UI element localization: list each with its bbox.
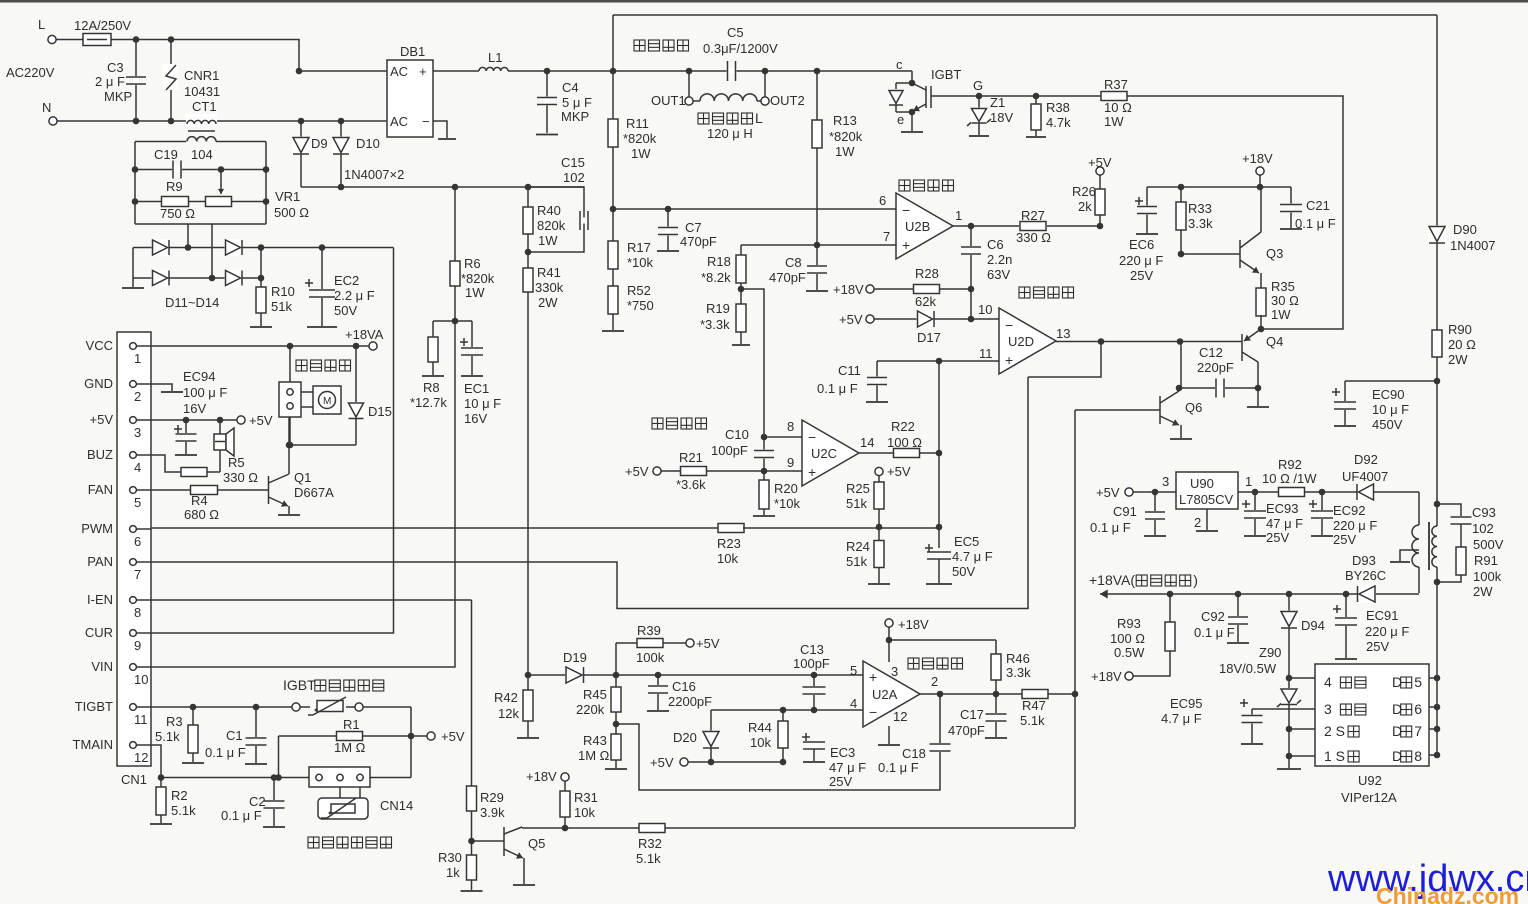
svg-text:R26: R26 — [1072, 184, 1096, 199]
wire bus y209 — [610, 206, 896, 213]
svg-text:VIN: VIN — [91, 659, 113, 674]
resistor R30 — [438, 841, 483, 891]
svg-text:*8.2k: *8.2k — [701, 270, 731, 285]
terminal +5V U90 — [1096, 485, 1176, 500]
svg-text:CN1: CN1 — [121, 772, 147, 787]
svg-text:R11: R11 — [626, 116, 649, 131]
svg-text:D19: D19 — [563, 650, 587, 665]
svg-text:EC90: EC90 — [1372, 387, 1405, 402]
svg-text:5.1k: 5.1k — [1020, 713, 1045, 728]
svg-text:C19: C19 — [154, 147, 178, 162]
svg-text:8: 8 — [787, 419, 794, 434]
svg-text:EC92: EC92 — [1333, 503, 1366, 518]
transformer core — [1428, 522, 1430, 570]
svg-text:OUT1: OUT1 — [651, 93, 686, 108]
svg-text:AC: AC — [390, 64, 408, 79]
resistor R45 — [576, 672, 621, 724]
svg-text:Z90: Z90 — [1259, 645, 1281, 660]
svg-text:12k: 12k — [498, 706, 519, 721]
svg-text:TIGBT: TIGBT — [75, 699, 113, 714]
capacitor C19 — [132, 147, 270, 179]
svg-text:2k: 2k — [1078, 199, 1092, 214]
wire top box — [613, 14, 1437, 16]
svg-text:FAN: FAN — [88, 482, 113, 497]
capacitor C11 — [817, 361, 888, 402]
svg-text:U90: U90 — [1190, 476, 1214, 491]
resistor R19 — [700, 286, 750, 345]
svg-text:R52: R52 — [627, 283, 651, 298]
svg-text:C11: C11 — [838, 363, 861, 378]
svg-text:L: L — [38, 17, 45, 32]
diode D15 — [348, 346, 392, 445]
resistor R21 — [625, 450, 764, 492]
svg-text:1W: 1W — [1271, 307, 1291, 322]
zener Z1 — [967, 93, 1013, 136]
svg-text:R44: R44 — [748, 720, 772, 735]
diode D11 — [152, 239, 170, 256]
svg-text:11: 11 — [134, 712, 148, 727]
svg-text:2 S: 2 S — [1324, 723, 1345, 739]
svg-text:R46: R46 — [1006, 651, 1030, 666]
svg-text:102: 102 — [563, 170, 585, 185]
label U92 — [1341, 773, 1397, 805]
U90 pin2 gnd — [1194, 509, 1218, 531]
fan connector — [279, 346, 301, 417]
wire pin2 — [1286, 726, 1315, 733]
fuse F1 12A/250V — [56, 18, 131, 46]
svg-text:9: 9 — [134, 638, 141, 653]
svg-text:): ) — [1193, 572, 1198, 588]
capacitor EC1 — [460, 321, 501, 426]
svg-text:3: 3 — [134, 425, 141, 440]
svg-text:220pF: 220pF — [1197, 360, 1234, 375]
svg-text:R6: R6 — [464, 256, 481, 271]
resistor R28 — [833, 266, 974, 309]
resistor R92 — [1238, 457, 1358, 497]
svg-text:C10: C10 — [725, 427, 749, 442]
fan motor M — [301, 386, 341, 414]
svg-text:14: 14 — [860, 435, 874, 450]
svg-text:G: G — [973, 78, 983, 93]
resistor R2 — [150, 778, 196, 825]
zener Z90 — [1219, 645, 1301, 768]
varistor CNR1 — [163, 36, 220, 124]
svg-text:R43: R43 — [583, 733, 607, 748]
resistor R93 — [1091, 591, 1175, 684]
wire R18R19 to C10 — [741, 289, 764, 437]
wire CUR route — [151, 248, 394, 634]
svg-text:1: 1 — [134, 351, 141, 366]
node R8 EC1 — [433, 318, 472, 325]
capacitor C16 — [647, 672, 712, 711]
svg-text:1W: 1W — [465, 285, 485, 300]
svg-text:D9: D9 — [311, 136, 328, 151]
svg-text:1: 1 — [955, 208, 962, 223]
svg-text:CN14: CN14 — [380, 798, 413, 813]
wire Q4 gnd — [1247, 385, 1269, 407]
U92 drain wires — [1429, 675, 1440, 759]
svg-text:U2A: U2A — [872, 687, 898, 702]
resistor R90 — [1432, 322, 1476, 504]
svg-text:D94: D94 — [1301, 618, 1325, 633]
capacitor C10 — [711, 427, 774, 474]
svg-text:0.1 μ F: 0.1 μ F — [1295, 216, 1336, 231]
svg-text:BUZ: BUZ — [87, 447, 113, 462]
wire main bus y71 — [613, 70, 912, 72]
svg-text:51k: 51k — [846, 554, 867, 569]
svg-text:2 μ F: 2 μ F — [95, 74, 125, 89]
svg-text:AC: AC — [390, 114, 408, 129]
terminal +5V D20 — [650, 755, 786, 770]
svg-text:R39: R39 — [637, 623, 661, 638]
svg-text:100 Ω: 100 Ω — [1110, 631, 1145, 646]
svg-text:*10k: *10k — [627, 255, 654, 270]
svg-text:3: 3 — [891, 664, 898, 679]
svg-text:2: 2 — [1194, 515, 1201, 530]
svg-text:10 Ω /1W: 10 Ω /1W — [1262, 471, 1317, 486]
svg-text:2.2n: 2.2n — [987, 252, 1012, 267]
svg-text:D20: D20 — [673, 730, 697, 745]
svg-text:+5V: +5V — [839, 312, 863, 327]
svg-text:VIPer12A: VIPer12A — [1341, 790, 1397, 805]
svg-text:R40: R40 — [537, 203, 561, 218]
transistor Q1 — [269, 417, 335, 515]
capacitor C91 — [1090, 492, 1166, 536]
capacitor C4 — [536, 68, 592, 135]
wire pin4 — [711, 696, 863, 713]
svg-text:VR1: VR1 — [275, 189, 300, 204]
diode D93 BY26C — [1345, 553, 1386, 603]
connector CN1 — [73, 332, 151, 787]
svg-text:EC3: EC3 — [830, 745, 855, 760]
svg-text:R45: R45 — [583, 687, 607, 702]
resistor R37 — [1101, 77, 1132, 129]
svg-text:51k: 51k — [846, 496, 867, 511]
svg-text:1N4007: 1N4007 — [1450, 238, 1496, 253]
svg-text:N: N — [42, 100, 51, 115]
svg-text:U92: U92 — [1358, 773, 1382, 788]
watermark chinadz — [1376, 883, 1519, 904]
capacitor EC6 — [1119, 187, 1163, 283]
diode D90 — [1428, 15, 1496, 330]
svg-text:12: 12 — [893, 709, 907, 724]
scan edge — [0, 0, 1528, 3]
svg-text:10 μ F: 10 μ F — [1372, 402, 1409, 417]
svg-text:R33: R33 — [1188, 201, 1212, 216]
svg-text:Chinadz.com: Chinadz.com — [1376, 883, 1519, 904]
svg-text:R3: R3 — [166, 714, 183, 729]
capacitor C8 — [769, 245, 828, 291]
svg-text:12A/250V: 12A/250V — [74, 18, 131, 33]
svg-text:*820k: *820k — [829, 129, 863, 144]
wire bridge row1 — [133, 244, 394, 251]
svg-text:10k: 10k — [750, 735, 771, 750]
svg-text:0.1 μ F: 0.1 μ F — [221, 808, 262, 823]
svg-text:L: L — [755, 110, 763, 126]
svg-text:100k: 100k — [636, 650, 665, 665]
svg-text:2W: 2W — [538, 295, 558, 310]
label 1N4007x2 — [344, 167, 404, 182]
svg-text:C12: C12 — [1199, 345, 1223, 360]
capacitor C12 — [1179, 345, 1258, 398]
resistor R27 — [1016, 208, 1103, 245]
svg-text:16V: 16V — [464, 411, 487, 426]
svg-text:220 μ F: 220 μ F — [1333, 518, 1377, 533]
svg-text:3: 3 — [1324, 701, 1332, 717]
label AC220V — [6, 65, 55, 80]
label power adjust — [1019, 287, 1074, 298]
transistor Q3 — [1178, 187, 1284, 289]
svg-text:10k: 10k — [574, 805, 595, 820]
svg-text:C17: C17 — [960, 707, 984, 722]
wire Q3Q4 base — [1176, 342, 1183, 392]
svg-text:C5: C5 — [727, 25, 744, 40]
svg-text:CUR: CUR — [85, 625, 113, 640]
svg-text:D93: D93 — [1352, 553, 1376, 568]
svg-text:R47: R47 — [1022, 698, 1046, 713]
wire U2B out — [952, 223, 1019, 230]
terminal +18V U2A — [885, 617, 996, 662]
wire +5V — [151, 413, 273, 428]
resistor R4 — [151, 486, 268, 523]
resistor R23 PWM line — [151, 524, 939, 567]
svg-text:+5V: +5V — [696, 636, 720, 651]
svg-text:30 Ω: 30 Ω — [1271, 293, 1299, 308]
svg-text:6: 6 — [1414, 701, 1422, 717]
wire to IGBT collector — [911, 71, 913, 83]
svg-text:5.1k: 5.1k — [155, 729, 180, 744]
svg-text:5.1k: 5.1k — [636, 851, 661, 866]
svg-text:16V: 16V — [183, 401, 206, 416]
wire gate G — [937, 78, 1101, 96]
svg-text:EC95: EC95 — [1170, 696, 1203, 711]
capacitor EC2 — [305, 248, 375, 328]
svg-text:U2D: U2D — [1008, 334, 1034, 349]
svg-text:Q5: Q5 — [528, 836, 545, 851]
diode D92 — [1342, 452, 1419, 501]
resistor R24 — [846, 527, 890, 584]
svg-text:Q4: Q4 — [1266, 334, 1283, 349]
svg-text:R24: R24 — [846, 539, 870, 554]
svg-text:R29: R29 — [480, 790, 504, 805]
svg-text:2.2 μ F: 2.2 μ F — [334, 288, 375, 303]
svg-text:7: 7 — [1414, 723, 1422, 739]
svg-text:2200pF: 2200pF — [668, 694, 712, 709]
svg-text:R10: R10 — [271, 284, 295, 299]
label sync ctrl — [899, 180, 954, 191]
svg-text:1W: 1W — [631, 146, 651, 161]
svg-text:R2: R2 — [171, 788, 188, 803]
svg-text:0.1 μ F: 0.1 μ F — [878, 760, 919, 775]
wire U2A col — [1074, 410, 1076, 827]
svg-text:3: 3 — [1162, 474, 1169, 489]
wire 18V rail — [1147, 151, 1291, 190]
svg-text:100k: 100k — [1473, 569, 1502, 584]
inductor L1 — [433, 50, 613, 71]
IC U92 VIPer12A — [1315, 664, 1429, 766]
label D11-D14 — [165, 295, 219, 310]
svg-text:330k: 330k — [535, 280, 564, 295]
svg-text:C1: C1 — [226, 728, 243, 743]
svg-text:EC94: EC94 — [183, 369, 216, 384]
svg-text:c: c — [896, 57, 903, 72]
svg-text:R25: R25 — [846, 481, 870, 496]
svg-text:0.1 μ F: 0.1 μ F — [1194, 625, 1235, 640]
svg-text:UF4007: UF4007 — [1342, 469, 1388, 484]
resistor R35 — [1256, 279, 1299, 332]
svg-text:63V: 63V — [987, 267, 1010, 282]
resistor R42 — [494, 675, 539, 738]
wire PAN route — [151, 377, 1028, 609]
wire pin1 gnd — [1277, 753, 1315, 769]
resistor R22 — [858, 419, 942, 458]
svg-text:C21: C21 — [1306, 198, 1330, 213]
svg-text:50V: 50V — [334, 303, 357, 318]
wire U2A out — [919, 691, 1022, 698]
svg-text:+5V: +5V — [887, 464, 911, 479]
svg-text:R41: R41 — [537, 265, 561, 280]
svg-text:*750: *750 — [627, 298, 654, 313]
svg-text:+5V: +5V — [1096, 485, 1120, 500]
svg-text:R93: R93 — [1117, 616, 1141, 631]
svg-text:10 μ F: 10 μ F — [464, 396, 501, 411]
svg-text:R5: R5 — [228, 455, 245, 470]
svg-text:1M Ω: 1M Ω — [578, 748, 610, 763]
svg-text:220 μ F: 220 μ F — [1365, 624, 1409, 639]
svg-text:D92: D92 — [1354, 452, 1378, 467]
capacitor EC92 — [1309, 492, 1377, 547]
svg-text:Q1: Q1 — [294, 470, 311, 485]
svg-text:0.1 μ F: 0.1 μ F — [817, 381, 858, 396]
svg-text:*3.3k: *3.3k — [700, 317, 730, 332]
label fan — [296, 360, 351, 371]
wire TMAIN — [151, 745, 310, 781]
svg-text:470pF: 470pF — [948, 723, 985, 738]
svg-text:0.1 μ F: 0.1 μ F — [205, 745, 246, 760]
wire gate loop — [1127, 96, 1343, 329]
svg-text:5: 5 — [850, 663, 857, 678]
wire pin9 — [764, 455, 802, 471]
svg-text:1: 1 — [1245, 474, 1252, 489]
svg-text:C18: C18 — [902, 746, 926, 761]
capacitor C92 — [1194, 591, 1249, 643]
svg-text:Q6: Q6 — [1185, 400, 1202, 415]
svg-text:18V: 18V — [990, 110, 1013, 125]
svg-text:+: + — [869, 669, 877, 685]
svg-text:+5V: +5V — [441, 729, 465, 744]
resistor R8 — [410, 321, 447, 410]
capacitor EC90 — [1332, 378, 1440, 432]
wire feedback loop — [616, 724, 940, 790]
capacitor C6 — [961, 226, 1012, 319]
svg-text:C13: C13 — [800, 642, 824, 657]
resistor R1 — [279, 707, 465, 755]
svg-text:R19: R19 — [706, 301, 730, 316]
label resonant cap — [634, 25, 778, 56]
watermark jdwx — [1327, 858, 1528, 900]
wire fan bottom — [287, 417, 356, 448]
svg-text:2W: 2W — [1473, 584, 1493, 599]
svg-text:R18: R18 — [707, 254, 731, 269]
svg-text:25V: 25V — [829, 774, 852, 789]
transformer aux winding — [1390, 492, 1419, 593]
wire VIN route — [151, 321, 455, 667]
svg-text:+: + — [808, 464, 816, 480]
svg-text:OUT2: OUT2 — [770, 93, 805, 108]
svg-text:5: 5 — [134, 495, 141, 510]
wire pin3 EC95 — [1252, 708, 1315, 710]
label heating coil — [698, 110, 763, 141]
wire R41 col — [525, 292, 532, 678]
svg-text:R21: R21 — [679, 450, 703, 465]
svg-text:R91: R91 — [1474, 553, 1498, 568]
svg-text:D667A: D667A — [294, 485, 334, 500]
svg-text:PWM: PWM — [81, 521, 113, 536]
resistor R13 — [812, 68, 863, 244]
resistor R32 — [636, 824, 665, 867]
pot box VR1 — [135, 137, 266, 224]
capacitor EC5 — [925, 534, 993, 584]
wire I-EN — [151, 599, 472, 601]
svg-text:BY26C: BY26C — [1345, 568, 1386, 583]
wire C11-R22-EC5 — [936, 361, 943, 548]
svg-text:−: − — [1005, 317, 1013, 333]
DB1 minus to ground — [433, 121, 456, 139]
svg-text:20 Ω: 20 Ω — [1448, 337, 1476, 352]
svg-text:10: 10 — [978, 302, 992, 317]
svg-text:C91: C91 — [1113, 504, 1137, 519]
svg-text:25V: 25V — [1333, 532, 1356, 547]
wire N line — [57, 120, 387, 122]
resistor R91 — [1437, 547, 1502, 599]
resistor R5 — [151, 455, 258, 485]
svg-text:+: + — [902, 237, 910, 253]
capacitor EC93 — [1242, 492, 1303, 545]
diode D20 — [673, 710, 720, 762]
svg-text:5.1k: 5.1k — [171, 803, 196, 818]
svg-text:C92: C92 — [1201, 609, 1225, 624]
wire box left edge — [610, 15, 617, 74]
svg-text:D15: D15 — [368, 404, 392, 419]
svg-text:25V: 25V — [1366, 639, 1389, 654]
svg-text:VCC: VCC — [86, 338, 113, 353]
svg-text:3.3k: 3.3k — [1006, 665, 1031, 680]
svg-text:+18V: +18V — [833, 282, 864, 297]
svg-text:8: 8 — [1414, 748, 1422, 764]
svg-text:IGBT: IGBT — [283, 677, 316, 693]
wire TIGBT — [151, 704, 292, 711]
svg-text:10: 10 — [134, 672, 148, 687]
svg-text:Q3: Q3 — [1266, 246, 1283, 261]
svg-text:5 μ F: 5 μ F — [562, 95, 592, 110]
wire +18VA fan rail — [1089, 572, 1419, 599]
svg-text:4.7k: 4.7k — [1046, 115, 1071, 130]
wire L to DB1 — [111, 40, 387, 75]
op-amp U2D — [971, 302, 1070, 374]
svg-text:+5V: +5V — [90, 412, 114, 427]
diode D12 — [225, 239, 243, 256]
transformer T90 primary — [1432, 501, 1440, 755]
svg-text:10k: 10k — [717, 551, 738, 566]
svg-text:500 Ω: 500 Ω — [274, 205, 309, 220]
svg-text:4: 4 — [850, 696, 857, 711]
svg-text:+: + — [1005, 352, 1013, 368]
svg-text:D17: D17 — [917, 330, 941, 345]
svg-text:680 Ω: 680 Ω — [184, 507, 219, 522]
svg-text:TMAIN: TMAIN — [73, 737, 113, 752]
svg-text:9: 9 — [787, 455, 794, 470]
capacitor C3 — [95, 36, 146, 124]
